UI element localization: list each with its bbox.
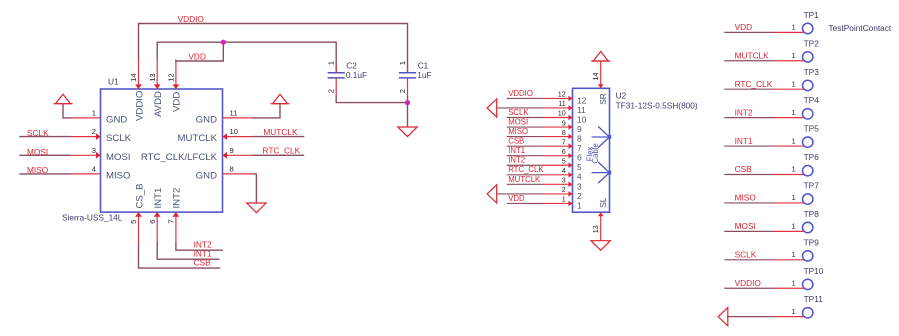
- svg-text:VDD: VDD: [735, 22, 753, 32]
- svg-text:11: 11: [577, 105, 586, 115]
- svg-text:VDDIO: VDDIO: [735, 278, 762, 288]
- svg-text:1: 1: [791, 278, 795, 287]
- svg-text:CSB: CSB: [735, 164, 753, 174]
- wire U2 pin3 net MUTCLK: [507, 183, 543, 185]
- svg-text:12: 12: [167, 73, 176, 81]
- svg-text:GND: GND: [106, 115, 127, 126]
- svg-text:VDD: VDD: [172, 92, 183, 112]
- wire U2 pin9 net MOSI: [507, 126, 543, 128]
- svg-text:1: 1: [791, 23, 795, 32]
- U2 pin stub 12: [543, 97, 573, 99]
- svg-text:1: 1: [791, 79, 795, 88]
- wire U2 pin12 net VDDIO: [507, 97, 543, 99]
- wire down to ground symbol: [407, 103, 409, 127]
- U2 inside arrow at y=172.6: [598, 162, 609, 183]
- svg-text:5: 5: [577, 162, 582, 172]
- U2 pin2 arrowhead: [569, 191, 573, 197]
- U2 pin stub 13: [600, 212, 602, 241]
- svg-text:9: 9: [562, 118, 566, 127]
- testpoint TP6: [803, 166, 813, 176]
- U2 pin stub 5: [543, 164, 573, 166]
- svg-text:4: 4: [577, 172, 582, 182]
- C1 pin1 stub: [407, 66, 409, 73]
- svg-text:5: 5: [562, 156, 566, 165]
- svg-text:MUTCLK: MUTCLK: [178, 133, 218, 144]
- capacitor C1 1uF: [399, 72, 416, 74]
- wire net SCLK to TP9: [724, 259, 774, 261]
- junction dot VDD node: [221, 40, 226, 45]
- U1 pin7 arrowhead: [173, 212, 180, 217]
- junction dot ground node: [405, 100, 410, 105]
- svg-text:11: 11: [230, 108, 238, 117]
- svg-text:1: 1: [791, 136, 795, 145]
- U2 pin stub 1: [543, 202, 573, 204]
- svg-text:6: 6: [148, 220, 157, 224]
- svg-text:11: 11: [558, 99, 565, 108]
- svg-text:MISO: MISO: [27, 165, 49, 175]
- svg-text:VDDIO: VDDIO: [178, 14, 205, 24]
- U1 right pin stub 8: [223, 173, 253, 175]
- svg-text:VDD: VDD: [508, 194, 525, 203]
- svg-text:10: 10: [577, 114, 587, 124]
- testpoint TP9: [803, 251, 813, 261]
- TP6 pin stub: [774, 174, 804, 176]
- power symbol VDDIO at U1 pin1: [56, 94, 71, 104]
- wire net INT1 to TP5: [724, 145, 774, 147]
- off-page arrow at U2 pin11: [487, 99, 497, 117]
- svg-text:TP6: TP6: [804, 152, 820, 162]
- wire U2 pin8 net MISO: [507, 136, 543, 138]
- U2 pin stub 8: [543, 136, 573, 138]
- svg-text:CSB: CSB: [194, 258, 212, 268]
- U1 left pin stub 2: [71, 136, 101, 138]
- wire U2 pin11 to arrow: [497, 107, 543, 109]
- svg-text:INT1: INT1: [735, 136, 753, 146]
- svg-text:5: 5: [129, 220, 138, 224]
- svg-text:4: 4: [92, 164, 96, 173]
- U1 bottom pin stub 5: [138, 212, 140, 242]
- svg-text:TF31-12S-0.5SH(800): TF31-12S-0.5SH(800): [616, 100, 698, 110]
- wire net CSB to TP6: [724, 174, 774, 176]
- svg-text:6: 6: [577, 153, 582, 163]
- off-page arrow at TP11: [718, 308, 728, 326]
- U2 pin stub 7: [543, 145, 573, 147]
- testpoint TP3: [803, 80, 813, 90]
- svg-text:9: 9: [230, 146, 234, 155]
- svg-text:8: 8: [230, 164, 234, 173]
- wire net VDD to TP1: [724, 31, 774, 33]
- TP7 pin stub: [774, 202, 804, 204]
- U2 pin7 arrowhead: [569, 143, 573, 149]
- power symbol (down) below U2 pin13: [591, 241, 610, 251]
- U2 pin3 arrowhead: [569, 182, 573, 188]
- svg-text:TestPointContact: TestPointContact: [829, 23, 892, 33]
- svg-text:C1: C1: [418, 60, 429, 70]
- svg-text:13: 13: [148, 73, 157, 81]
- svg-text:MOSI: MOSI: [27, 147, 48, 157]
- testpoint TP10: [803, 279, 813, 289]
- svg-text:RTC_CLK: RTC_CLK: [508, 165, 544, 174]
- wire power symbol to U1 pin1: [63, 104, 71, 118]
- wire to TP11: [727, 316, 774, 318]
- svg-text:TP8: TP8: [804, 209, 820, 219]
- svg-text:INT2: INT2: [735, 107, 753, 117]
- svg-text:INT1: INT1: [153, 188, 164, 209]
- svg-text:MISO: MISO: [735, 193, 757, 203]
- svg-text:MUTCLK: MUTCLK: [735, 50, 770, 60]
- svg-text:0.1uF: 0.1uF: [346, 70, 367, 80]
- wire U1 pin8 to ground: [253, 174, 257, 203]
- U1 left pin stub 4: [71, 173, 101, 175]
- svg-text:1: 1: [327, 61, 336, 65]
- svg-text:Sierra-USS_14L: Sierra-USS_14L: [62, 213, 123, 223]
- wire RTC_CLK from U1 pin9: [253, 154, 305, 156]
- wire U2 pin10 net SCLK: [507, 117, 543, 119]
- wire net MUTCLK to TP2: [724, 60, 774, 62]
- U1 bottom pin stub 6: [156, 212, 158, 242]
- svg-text:1: 1: [398, 61, 407, 65]
- C1 pin2 stub: [407, 78, 409, 96]
- wire U2 pin2 to arrow: [497, 193, 543, 195]
- svg-text:AVDD: AVDD: [153, 91, 164, 117]
- power symbol VDDIO at U1 pin11: [273, 94, 288, 104]
- svg-text:1: 1: [791, 222, 795, 231]
- U1 top pin stub 13: [156, 60, 158, 90]
- svg-text:14: 14: [129, 73, 138, 81]
- svg-text:SCLK: SCLK: [735, 249, 757, 259]
- wire VDD branch: U1 pin12 up to VDD run: [176, 42, 223, 61]
- U2 pin stub 3: [543, 183, 573, 185]
- TP2 pin stub: [774, 60, 804, 62]
- U1 pin2 arrowhead: [96, 133, 101, 140]
- wire SCLK stub to U1 pin2: [19, 136, 70, 138]
- U1 left pin stub 1: [71, 117, 101, 119]
- svg-text:8: 8: [562, 128, 566, 137]
- op-amp U1 body Sierra-USS_14L: [101, 89, 223, 212]
- wire net RTC_CLK to TP3: [724, 88, 774, 90]
- connector U2 body TF31-12S-0.5SH(800): [573, 88, 610, 212]
- svg-text:1: 1: [791, 193, 795, 202]
- svg-text:INT1: INT1: [508, 146, 525, 155]
- svg-text:12: 12: [558, 90, 566, 99]
- U2 pin12 arrowhead: [569, 96, 573, 102]
- svg-text:MISO: MISO: [106, 171, 131, 182]
- svg-text:VDD: VDD: [188, 52, 206, 62]
- testpoint TP1: [803, 23, 813, 33]
- svg-text:TP11: TP11: [804, 294, 824, 304]
- svg-text:1: 1: [791, 51, 795, 60]
- U1 top pin stub 12: [175, 60, 177, 90]
- svg-text:2: 2: [398, 89, 407, 93]
- U2 pin stub 14: [600, 61, 602, 88]
- svg-text:1: 1: [92, 108, 96, 117]
- svg-text:3: 3: [92, 146, 96, 155]
- power symbol above U2 pin14: [593, 52, 608, 62]
- svg-text:U2: U2: [616, 91, 627, 101]
- svg-text:9: 9: [577, 124, 582, 134]
- wire INT1 from U1 pin6: [157, 242, 219, 259]
- U1 top pin stub 14: [138, 60, 140, 90]
- TP10 pin stub: [774, 287, 804, 289]
- wire VDDIO: U1 pin14 up and across to C1: [139, 24, 408, 73]
- U2 pin stub 11: [543, 107, 573, 109]
- svg-text:SR: SR: [598, 93, 608, 105]
- C2 pin2 stub: [335, 78, 337, 96]
- wire U2 pin6 net INT1: [507, 155, 543, 157]
- U2 inside arrow at y=137.0: [598, 127, 609, 148]
- U1 pin12 arrowhead: [173, 84, 180, 89]
- wire net MOSI to TP8: [724, 230, 774, 232]
- svg-text:GND: GND: [196, 171, 217, 182]
- testpoint TP4: [803, 109, 813, 119]
- testpoint TP8: [803, 222, 813, 232]
- svg-text:1: 1: [577, 200, 582, 210]
- svg-text:13: 13: [591, 225, 600, 233]
- U1 right pin stub 11: [223, 117, 253, 119]
- svg-text:SCLK: SCLK: [106, 133, 132, 144]
- svg-text:1: 1: [562, 195, 566, 204]
- off-page arrow at U2 pin2: [487, 185, 497, 203]
- svg-text:2: 2: [562, 185, 566, 194]
- wire C2 bottom to ground node: [336, 96, 407, 103]
- wire U2 pin5 net INT2: [507, 164, 543, 166]
- wire net VDDIO to TP10: [724, 287, 774, 289]
- U1 right pin stub 10: [223, 136, 253, 138]
- testpoint TP7: [803, 194, 813, 204]
- U2 pin8 arrowhead: [569, 134, 573, 140]
- svg-text:10: 10: [230, 127, 238, 136]
- U2 pin4 arrowhead: [569, 172, 573, 178]
- svg-text:RTC_CLK: RTC_CLK: [263, 146, 301, 156]
- svg-text:8: 8: [577, 134, 582, 144]
- U1 pin6 arrowhead: [154, 212, 161, 217]
- U2 pin stub 2: [543, 193, 573, 195]
- svg-text:MISO: MISO: [508, 127, 528, 136]
- svg-text:MUTCLK: MUTCLK: [508, 175, 541, 184]
- svg-text:TP10: TP10: [804, 266, 824, 276]
- U2 pin13 arrowhead: [598, 212, 604, 216]
- svg-text:C2: C2: [346, 60, 357, 70]
- ground symbol at U1 pin8: [247, 203, 266, 213]
- U1 pin5 arrowhead: [135, 212, 142, 217]
- svg-text:2: 2: [577, 191, 582, 201]
- svg-text:MUTCLK: MUTCLK: [263, 127, 298, 137]
- TP9 pin stub: [774, 259, 804, 261]
- svg-text:VDDIO: VDDIO: [134, 91, 145, 121]
- svg-text:7: 7: [562, 137, 566, 146]
- wire U2 pin7 net CSB: [507, 145, 543, 147]
- U1 bottom pin stub 7: [175, 212, 177, 242]
- U2 pin9 arrowhead: [569, 124, 573, 130]
- svg-text:MOSI: MOSI: [508, 117, 528, 126]
- U2 pin stub 4: [543, 174, 573, 176]
- U2 pin5 arrowhead: [569, 162, 573, 168]
- U1 pin13 arrowhead: [154, 84, 161, 89]
- wire net MISO to TP7: [724, 202, 774, 204]
- svg-text:TP1: TP1: [804, 10, 820, 20]
- TP5 pin stub: [774, 145, 804, 147]
- svg-text:1: 1: [791, 307, 795, 316]
- svg-text:CS_B: CS_B: [134, 183, 145, 208]
- TP11 pin stub: [774, 316, 804, 318]
- U2 pin14 arrowhead: [598, 84, 604, 88]
- svg-text:SL: SL: [598, 197, 608, 208]
- svg-text:TP3: TP3: [804, 67, 820, 77]
- svg-text:1: 1: [791, 108, 795, 117]
- TP4 pin stub: [774, 117, 804, 119]
- U2 pin11 arrowhead: [569, 105, 573, 111]
- wire C1 bottom to ground node: [407, 96, 409, 103]
- svg-text:TP4: TP4: [804, 95, 820, 105]
- U2 pin6 arrowhead: [569, 153, 573, 159]
- wire INT2 from U1 pin7: [176, 242, 223, 250]
- capacitor C2 0.1uF: [328, 72, 345, 74]
- svg-text:10: 10: [558, 109, 566, 118]
- svg-text:12: 12: [577, 95, 587, 105]
- U2 pin10 arrowhead: [569, 115, 573, 121]
- U1 left pin stub 3: [71, 154, 101, 156]
- wire U2 pin1 net VDD: [507, 202, 543, 204]
- U2 pin stub 10: [543, 117, 573, 119]
- U1 pin3 arrowhead: [96, 152, 101, 159]
- svg-text:7: 7: [167, 220, 176, 224]
- svg-text:SCLK: SCLK: [508, 108, 529, 117]
- ground symbol under C1/C2: [398, 127, 417, 137]
- svg-text:TP9: TP9: [804, 237, 820, 247]
- svg-text:CSB: CSB: [508, 137, 524, 146]
- svg-text:1uF: 1uF: [417, 70, 431, 80]
- svg-text:4: 4: [562, 166, 566, 175]
- testpoint TP2: [803, 52, 813, 62]
- testpoint TP5: [803, 137, 813, 147]
- svg-text:1: 1: [791, 165, 795, 174]
- U1 pin9 arrowhead: [223, 152, 228, 159]
- svg-text:TP7: TP7: [804, 180, 820, 190]
- wire MOSI stub to U1 pin3: [19, 154, 70, 156]
- svg-text:14: 14: [591, 73, 600, 81]
- svg-text:SCLK: SCLK: [27, 128, 49, 138]
- svg-text:GND: GND: [196, 115, 217, 126]
- testpoint TP11: [803, 308, 813, 318]
- U2 pin stub 6: [543, 155, 573, 157]
- svg-text:INT2: INT2: [508, 156, 525, 165]
- wire power symbol to U1 pin11: [253, 104, 281, 118]
- svg-text:RTC_CLK/LFCLK: RTC_CLK/LFCLK: [141, 152, 218, 163]
- svg-text:MOSI: MOSI: [735, 221, 756, 231]
- wire MUTCLK from U1 pin10: [253, 136, 305, 138]
- svg-text:6: 6: [562, 147, 566, 156]
- U1 pin14 arrowhead: [135, 84, 142, 89]
- svg-text:7: 7: [577, 143, 582, 153]
- wire VDD: U1 pin13 up and across to C2: [157, 42, 336, 72]
- svg-text:1: 1: [791, 250, 795, 259]
- TP3 pin stub: [774, 88, 804, 90]
- C2 pin1 stub: [335, 66, 337, 73]
- U1 pin10 arrowhead: [223, 133, 228, 140]
- wire CSB from U1 pin5: [139, 242, 221, 268]
- svg-text:2: 2: [327, 89, 336, 93]
- TP8 pin stub: [774, 230, 804, 232]
- svg-text:VDDIO: VDDIO: [508, 89, 533, 98]
- TP1 pin stub: [774, 31, 804, 33]
- svg-text:U1: U1: [108, 77, 119, 87]
- wire MISO stub to U1 pin4: [19, 173, 70, 175]
- U1 right pin stub 9: [223, 154, 253, 156]
- svg-text:TP5: TP5: [804, 124, 820, 134]
- svg-text:Cable: Cable: [591, 143, 600, 163]
- wire net INT2 to TP4: [724, 117, 774, 119]
- U2 pin1 arrowhead: [569, 201, 573, 207]
- svg-text:RTC_CLK: RTC_CLK: [735, 79, 773, 89]
- U2 pin stub 9: [543, 126, 573, 128]
- wire U2 pin4 net RTC_CLK: [507, 174, 543, 176]
- svg-text:MOSI: MOSI: [106, 152, 131, 163]
- svg-text:3: 3: [562, 176, 566, 185]
- svg-text:INT2: INT2: [172, 188, 183, 209]
- svg-text:TP2: TP2: [804, 38, 820, 48]
- svg-text:2: 2: [92, 127, 96, 136]
- svg-text:3: 3: [577, 181, 582, 191]
